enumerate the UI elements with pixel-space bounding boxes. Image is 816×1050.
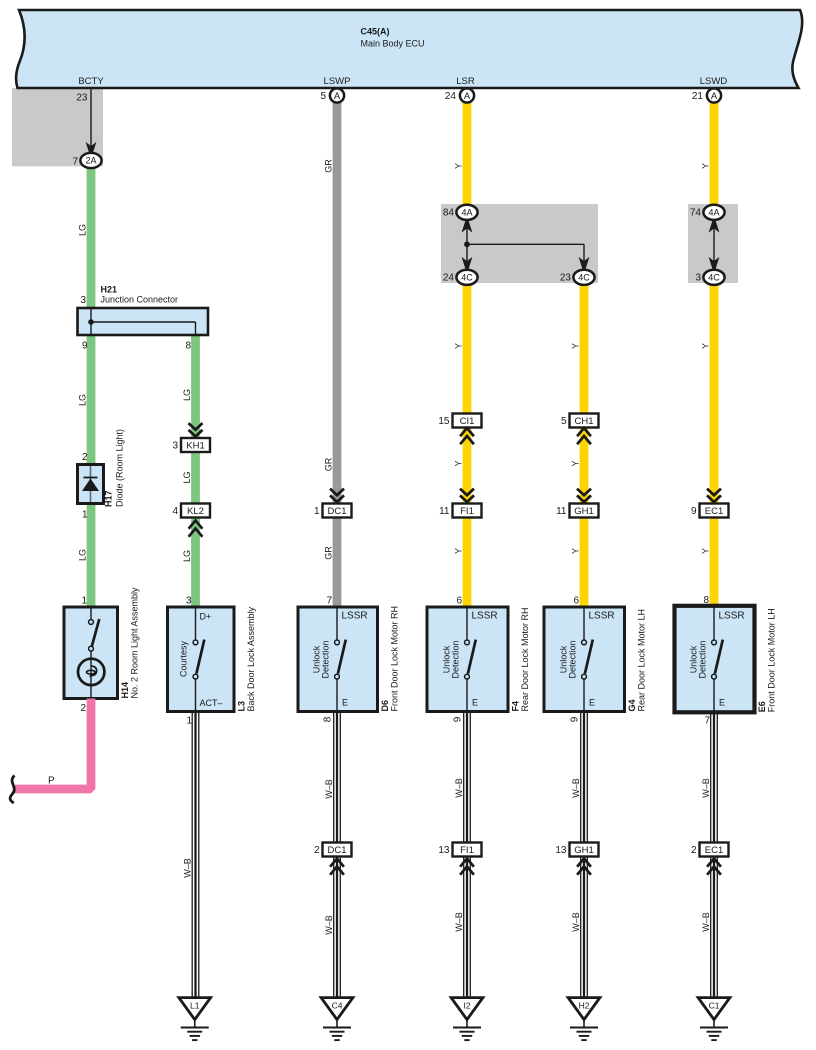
svg-text:Y: Y xyxy=(454,548,464,554)
svg-text:FI1: FI1 xyxy=(460,845,474,856)
wire LG from 2A to H14 (col1) xyxy=(87,168,96,608)
svg-text:13: 13 xyxy=(555,845,567,856)
svg-text:E: E xyxy=(589,698,595,708)
svg-text:Junction Connector: Junction Connector xyxy=(101,295,179,305)
svg-text:11: 11 xyxy=(439,506,450,517)
wire W-B from E6 to ground C1 xyxy=(710,712,712,996)
svg-text:Y: Y xyxy=(454,343,464,349)
svg-text:Y: Y xyxy=(454,163,464,169)
svg-text:5: 5 xyxy=(561,416,567,427)
svg-text:H21: H21 xyxy=(101,285,118,295)
svg-text:LSSR: LSSR xyxy=(342,611,368,622)
connector DC1 pin 1 xyxy=(330,489,344,496)
svg-text:GR: GR xyxy=(324,546,334,560)
svg-text:4A: 4A xyxy=(708,208,719,218)
connector CI1 pin 15 xyxy=(453,414,482,428)
svg-text:KH1: KH1 xyxy=(186,440,204,451)
svg-text:Detection: Detection xyxy=(568,640,578,678)
connector 4A pin 84 xyxy=(456,205,477,220)
connector 4A pin 74 xyxy=(703,205,724,220)
ground L1 xyxy=(179,998,211,1020)
ground C1 xyxy=(698,998,730,1020)
svg-text:W–B: W–B xyxy=(454,912,464,932)
svg-text:E6: E6 xyxy=(757,701,767,712)
svg-text:4A: 4A xyxy=(461,208,472,218)
shading behind 4A/4C connectors (LSWD) xyxy=(688,204,738,283)
svg-text:GR: GR xyxy=(324,457,334,471)
wire W-B from F4 to ground I2 xyxy=(463,712,465,997)
svg-text:E: E xyxy=(472,698,478,708)
svg-text:Y: Y xyxy=(571,343,581,349)
svg-text:LG: LG xyxy=(182,550,192,562)
connector KH1 pin 3 xyxy=(189,423,203,430)
svg-text:4: 4 xyxy=(172,506,178,517)
svg-text:13: 13 xyxy=(438,845,450,856)
svg-text:E: E xyxy=(342,698,348,708)
svg-text:9: 9 xyxy=(691,506,697,517)
svg-text:2: 2 xyxy=(82,452,88,463)
connector 2A xyxy=(80,153,101,168)
svg-text:Front Door Lock Motor RH: Front Door Lock Motor RH xyxy=(390,606,400,712)
svg-text:74: 74 xyxy=(690,208,702,219)
svg-text:8: 8 xyxy=(703,595,709,606)
svg-text:3: 3 xyxy=(80,295,86,306)
shading behind 4A/4C connectors (LSR) xyxy=(441,204,598,283)
svg-text:5: 5 xyxy=(320,91,326,102)
wire P from H14 to off-page xyxy=(15,699,91,790)
pin 5 connector A (LSWP) xyxy=(330,88,344,102)
svg-text:4C: 4C xyxy=(578,273,590,283)
svg-text:LSSR: LSSR xyxy=(719,611,745,622)
svg-text:2: 2 xyxy=(314,845,320,856)
connector DC1 pin 2 (lower) xyxy=(323,843,352,857)
pin 24 connector A (LSR) xyxy=(460,88,474,102)
svg-text:C4: C4 xyxy=(332,1001,343,1011)
door lock motor G4 Rear Door Lock Motor LH xyxy=(544,607,625,712)
connector EC1 pin 2 (lower) xyxy=(700,843,729,857)
svg-text:A: A xyxy=(334,91,341,102)
svg-text:F4: F4 xyxy=(511,701,521,712)
svg-text:D6: D6 xyxy=(380,700,390,712)
svg-text:Front Door Lock Motor LH: Front Door Lock Motor LH xyxy=(767,608,777,712)
ECU C45(A) Main Body ECU xyxy=(16,10,802,88)
svg-text:G4: G4 xyxy=(627,699,637,711)
svg-text:A: A xyxy=(464,91,471,102)
svg-text:Y: Y xyxy=(701,548,711,554)
back door lock L3 Back Door Lock Assembly xyxy=(168,607,235,712)
ground H2 xyxy=(568,998,600,1020)
wire W-B from G4 to ground H2 xyxy=(580,712,582,997)
svg-text:Y: Y xyxy=(701,163,711,169)
room light H14 No. 2 Room Light Assembly xyxy=(64,607,118,699)
svg-text:Back Door Lock Assembly: Back Door Lock Assembly xyxy=(246,606,256,711)
svg-text:L1: L1 xyxy=(190,1001,200,1011)
svg-text:8: 8 xyxy=(185,341,191,352)
connector 4C pin 3 xyxy=(703,270,724,285)
svg-text:Y: Y xyxy=(701,343,711,349)
svg-text:A: A xyxy=(711,91,718,102)
connector FI1 pin 13 (lower) xyxy=(453,843,482,857)
wire Y from 4C to E6 (col6) xyxy=(710,283,719,608)
svg-text:E: E xyxy=(719,698,725,708)
svg-text:2: 2 xyxy=(80,703,86,714)
svg-text:LG: LG xyxy=(78,394,88,406)
ground I2 xyxy=(451,998,483,1020)
svg-text:C1: C1 xyxy=(709,1001,720,1011)
svg-text:P: P xyxy=(48,776,55,787)
svg-text:H14: H14 xyxy=(120,682,130,699)
svg-text:W–B: W–B xyxy=(183,858,193,878)
connector FI1 pin 11 xyxy=(460,489,474,496)
connector GH1 pin 11 xyxy=(577,489,591,496)
svg-text:9: 9 xyxy=(570,716,581,722)
svg-text:H2: H2 xyxy=(579,1001,590,1011)
svg-text:Y: Y xyxy=(454,460,464,466)
connector EC1 pin 9 xyxy=(707,489,721,496)
svg-text:L3: L3 xyxy=(237,701,247,712)
svg-text:FI1: FI1 xyxy=(460,506,474,517)
svg-text:W–B: W–B xyxy=(324,779,334,799)
svg-text:W–B: W–B xyxy=(571,778,581,798)
svg-text:Y: Y xyxy=(571,548,581,554)
off-page squiggle xyxy=(10,776,14,804)
svg-text:KL2: KL2 xyxy=(187,506,204,517)
svg-text:3: 3 xyxy=(172,441,178,452)
connector 4C pin 23 xyxy=(573,270,594,285)
svg-text:6: 6 xyxy=(456,596,462,607)
svg-text:EC1: EC1 xyxy=(705,845,723,856)
svg-text:1: 1 xyxy=(314,506,320,517)
svg-text:24: 24 xyxy=(443,273,455,284)
svg-text:W–B: W–B xyxy=(701,778,711,798)
svg-text:LG: LG xyxy=(78,224,88,236)
svg-text:D+: D+ xyxy=(200,612,212,622)
svg-text:7: 7 xyxy=(326,596,332,607)
svg-text:Rear Door Lock Motor RH: Rear Door Lock Motor RH xyxy=(520,607,530,711)
svg-text:2: 2 xyxy=(691,845,697,856)
svg-text:H17: H17 xyxy=(104,490,114,507)
svg-text:9: 9 xyxy=(82,341,88,352)
svg-text:GR: GR xyxy=(324,159,334,173)
svg-text:24: 24 xyxy=(445,91,457,102)
svg-text:2A: 2A xyxy=(85,156,96,166)
svg-text:7: 7 xyxy=(704,716,710,727)
svg-text:Rear Door Lock Motor LH: Rear Door Lock Motor LH xyxy=(637,609,647,712)
svg-text:W–B: W–B xyxy=(454,778,464,798)
svg-text:84: 84 xyxy=(443,208,455,219)
svg-text:BCTY: BCTY xyxy=(78,76,104,87)
svg-text:W–B: W–B xyxy=(701,912,711,932)
connector KL2 pin 4 xyxy=(181,504,210,518)
svg-text:DC1: DC1 xyxy=(327,506,346,517)
wire W-B from L3 to ground L1 xyxy=(191,712,193,997)
svg-text:CI1: CI1 xyxy=(460,416,475,427)
door lock motor E6 Front Door Lock Motor LH xyxy=(675,606,755,713)
svg-text:23: 23 xyxy=(76,93,88,104)
svg-text:LSSR: LSSR xyxy=(472,611,498,622)
svg-text:15: 15 xyxy=(438,416,450,427)
svg-text:9: 9 xyxy=(453,716,464,722)
shading behind 2A connector xyxy=(12,88,103,166)
svg-text:3: 3 xyxy=(695,273,701,284)
svg-text:LSWD: LSWD xyxy=(700,76,728,87)
svg-text:DC1: DC1 xyxy=(327,845,346,856)
svg-text:GH1: GH1 xyxy=(574,845,594,856)
svg-text:Detection: Detection xyxy=(451,640,461,678)
svg-text:Main Body ECU: Main Body ECU xyxy=(361,39,425,49)
svg-text:Detection: Detection xyxy=(698,640,708,678)
wire Y from 4C to G4 (col5) xyxy=(580,283,589,608)
svg-text:LSWP: LSWP xyxy=(324,76,351,87)
wire Y from 4C to F4 (col4) xyxy=(463,283,472,608)
wire W-B from D6 to ground C4 xyxy=(333,712,335,997)
svg-text:W–B: W–B xyxy=(324,915,334,935)
svg-text:Detection: Detection xyxy=(321,640,331,678)
svg-text:I2: I2 xyxy=(463,1001,470,1011)
svg-text:1: 1 xyxy=(82,510,88,521)
pin 21 connector A (LSWD) xyxy=(707,88,721,102)
svg-text:GH1: GH1 xyxy=(574,506,594,517)
svg-text:4C: 4C xyxy=(461,273,473,283)
svg-text:21: 21 xyxy=(692,91,704,102)
diode H17 (Room Light) xyxy=(78,465,104,504)
svg-text:ACT–: ACT– xyxy=(200,698,223,708)
svg-text:23: 23 xyxy=(560,273,572,284)
svg-text:LSR: LSR xyxy=(456,76,475,87)
svg-text:1: 1 xyxy=(186,716,192,727)
svg-text:No. 2 Room Light Assembly: No. 2 Room Light Assembly xyxy=(130,587,140,699)
junction connector H21 xyxy=(78,308,209,335)
svg-text:C45(A): C45(A) xyxy=(361,27,390,37)
svg-text:Courtesy: Courtesy xyxy=(178,640,188,677)
svg-text:LG: LG xyxy=(182,471,192,483)
svg-text:4C: 4C xyxy=(708,273,720,283)
svg-text:LG: LG xyxy=(78,549,88,561)
wire Y from LSR to 4A (col4) xyxy=(463,102,472,206)
wire Y from LSWD to 4A (col6) xyxy=(710,102,719,206)
svg-text:7: 7 xyxy=(72,157,78,168)
door lock motor F4 Rear Door Lock Motor RH xyxy=(427,607,508,712)
svg-text:1: 1 xyxy=(81,596,87,607)
door lock motor D6 Front Door Lock Motor RH xyxy=(298,607,378,712)
svg-text:11: 11 xyxy=(556,506,567,517)
pin 23 lead with arrow into 2A xyxy=(90,88,92,146)
jumper 4A-4C (LSWD) xyxy=(709,221,720,233)
svg-text:W–B: W–B xyxy=(571,912,581,932)
wire GR from LSWP to D6 (col3) xyxy=(333,102,342,608)
svg-text:Diode (Room Light): Diode (Room Light) xyxy=(115,429,125,507)
wire LG from H21 to L3 (col2) xyxy=(191,334,200,608)
jumper 4A-4C with junction (LSR) xyxy=(462,221,473,233)
connector CH1 pin 5 xyxy=(570,414,599,428)
svg-text:Y: Y xyxy=(571,460,581,466)
svg-text:LSSR: LSSR xyxy=(589,611,615,622)
connector 4C pin 24 xyxy=(456,270,477,285)
connector GH1 pin 13 (lower) xyxy=(570,843,599,857)
svg-text:CH1: CH1 xyxy=(574,416,593,427)
svg-text:6: 6 xyxy=(573,596,579,607)
svg-text:LG: LG xyxy=(182,389,192,401)
svg-text:8: 8 xyxy=(323,716,334,722)
svg-text:3: 3 xyxy=(186,596,192,607)
svg-text:EC1: EC1 xyxy=(705,506,723,517)
ground C4 xyxy=(321,998,353,1020)
